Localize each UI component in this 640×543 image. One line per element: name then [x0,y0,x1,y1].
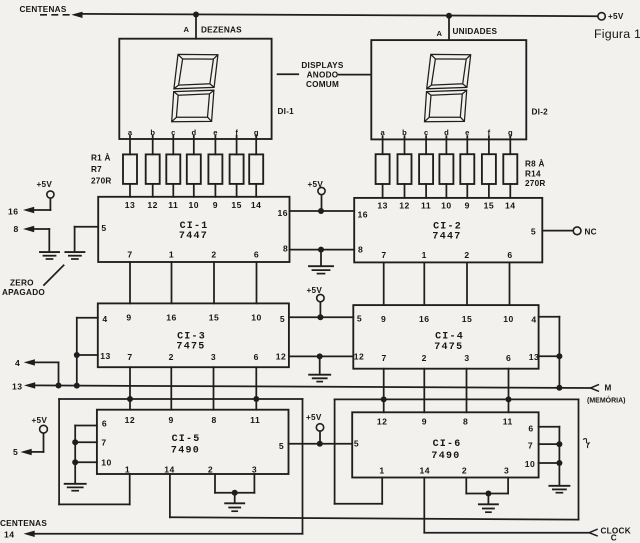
svg-text:DI-2: DI-2 [532,107,549,116]
svg-text:2: 2 [169,352,174,362]
svg-text:+5V: +5V [608,12,624,21]
svg-text:11: 11 [250,415,260,425]
svg-text:13: 13 [377,201,388,211]
svg-text:14: 14 [505,201,516,211]
svg-text:8: 8 [14,224,19,234]
svg-text:APAGADO: APAGADO [2,288,45,297]
svg-text:ANODO: ANODO [307,71,339,80]
svg-text:11: 11 [421,201,431,211]
svg-text:12: 12 [377,417,388,427]
svg-text:13: 13 [125,200,136,210]
svg-text:7447: 7447 [179,231,208,242]
svg-text:5: 5 [279,441,284,451]
svg-text:3: 3 [252,465,257,475]
svg-text:4: 4 [531,315,536,325]
svg-text:R7: R7 [91,165,102,174]
svg-text:NC: NC [585,228,597,237]
svg-text:7: 7 [127,249,132,259]
svg-text:8: 8 [211,415,216,425]
svg-text:5: 5 [354,439,359,449]
svg-text:A: A [184,25,190,34]
svg-text:16: 16 [419,314,430,324]
svg-text:10: 10 [189,200,200,210]
svg-text:b: b [150,128,155,137]
svg-text:(MEMÓRIA): (MEMÓRIA) [587,395,626,404]
svg-text:16: 16 [8,207,19,217]
svg-text:6: 6 [506,353,511,363]
svg-text:7: 7 [382,353,387,363]
svg-text:COMUM: COMUM [306,80,339,89]
svg-text:15: 15 [231,200,242,210]
svg-text:12: 12 [147,200,158,210]
svg-text:CENTENAS: CENTENAS [0,519,47,528]
svg-text:8: 8 [283,244,288,254]
svg-text:16: 16 [358,210,369,220]
svg-text:8: 8 [358,245,363,255]
svg-text:10: 10 [441,201,452,211]
svg-text:14: 14 [164,465,175,475]
svg-text:R14: R14 [525,170,541,179]
svg-text:+5V: +5V [308,180,324,189]
svg-text:2: 2 [464,250,469,260]
svg-text:9: 9 [213,200,218,210]
svg-text:1: 1 [169,249,174,259]
svg-text:14: 14 [251,200,262,210]
svg-text:10: 10 [251,313,262,323]
svg-text:2: 2 [211,249,216,259]
svg-text:10: 10 [525,459,536,469]
svg-text:7475: 7475 [434,342,463,353]
svg-text:9: 9 [126,313,131,323]
svg-text:c: c [424,128,428,137]
svg-text:270R: 270R [91,177,112,186]
svg-text:R1 À: R1 À [91,153,111,163]
svg-text:DEZENAS: DEZENAS [201,25,242,34]
svg-text:9: 9 [422,417,427,427]
svg-text:7: 7 [381,250,386,260]
svg-text:7: 7 [101,438,106,448]
svg-text:+5V: +5V [306,413,322,422]
svg-text:15: 15 [484,201,495,211]
svg-text:12: 12 [354,351,365,361]
svg-text:UNIDADES: UNIDADES [453,27,498,36]
svg-text:12: 12 [399,201,410,211]
svg-text:1: 1 [125,465,130,475]
svg-text:7447: 7447 [432,231,461,242]
svg-text:DISPLAYS: DISPLAYS [301,61,343,70]
svg-text:9: 9 [169,415,174,425]
svg-text:16: 16 [278,208,289,218]
svg-text:Figura 1: Figura 1 [594,27,640,41]
svg-text:15: 15 [209,313,220,323]
svg-text:A: A [437,29,443,38]
svg-text:c: c [171,128,175,137]
svg-text:9: 9 [465,201,470,211]
svg-text:13: 13 [529,352,540,362]
svg-text:CI-5: CI-5 [172,434,201,445]
svg-text:9: 9 [381,314,386,324]
svg-text:270R: 270R [525,179,546,188]
svg-text:C: C [611,533,617,542]
svg-text:7475: 7475 [176,342,205,353]
svg-text:CENTENAS: CENTENAS [20,5,67,14]
svg-text:3: 3 [211,352,216,362]
svg-text:4: 4 [15,358,20,368]
svg-text:2: 2 [422,353,427,363]
svg-text:e: e [465,128,469,137]
svg-text:11: 11 [168,200,178,210]
svg-text:5: 5 [13,447,18,457]
svg-text:CI-6: CI-6 [433,439,462,450]
svg-text:12: 12 [125,415,136,425]
svg-text:5: 5 [280,314,285,324]
svg-text:5: 5 [357,314,362,324]
svg-text:12: 12 [276,351,287,361]
svg-text:6: 6 [507,250,512,260]
svg-text:15: 15 [462,314,473,324]
svg-text:1: 1 [422,250,427,260]
svg-text:13: 13 [12,382,23,392]
svg-text:10: 10 [101,458,112,468]
svg-text:11: 11 [503,417,513,427]
svg-text:8: 8 [463,417,468,427]
svg-text:d: d [444,128,449,137]
svg-text:+5V: +5V [307,286,323,295]
svg-text:7: 7 [528,441,533,451]
svg-text:6: 6 [102,419,107,429]
svg-text:2: 2 [462,466,467,476]
svg-text:14: 14 [4,530,15,540]
svg-text:b: b [402,128,407,137]
svg-text:16: 16 [166,313,177,323]
svg-text:d: d [191,128,196,137]
svg-text:DI-1: DI-1 [278,107,295,116]
svg-text:+5V: +5V [37,180,53,189]
svg-text:e: e [213,128,217,137]
svg-text:+5V: +5V [32,416,48,425]
svg-text:2: 2 [208,465,213,475]
svg-text:7490: 7490 [431,451,460,462]
svg-text:M: M [605,384,612,393]
svg-text:4: 4 [102,314,107,324]
svg-text:14: 14 [420,466,431,476]
svg-text:1: 1 [379,466,384,476]
svg-text:10: 10 [503,314,514,324]
svg-text:5: 5 [531,227,536,237]
svg-text:g: g [508,128,513,137]
svg-text:6: 6 [528,424,533,434]
svg-text:6: 6 [254,249,259,259]
svg-text:g: g [254,128,259,137]
svg-text:3: 3 [464,353,469,363]
svg-text:ZERO: ZERO [10,279,34,288]
svg-text:7: 7 [127,352,132,362]
svg-text:7490: 7490 [171,446,200,457]
svg-text:R8 À: R8 À [525,159,545,169]
svg-text:13: 13 [100,351,111,361]
svg-text:5: 5 [101,223,106,233]
svg-text:3: 3 [504,466,509,476]
svg-text:6: 6 [254,352,259,362]
